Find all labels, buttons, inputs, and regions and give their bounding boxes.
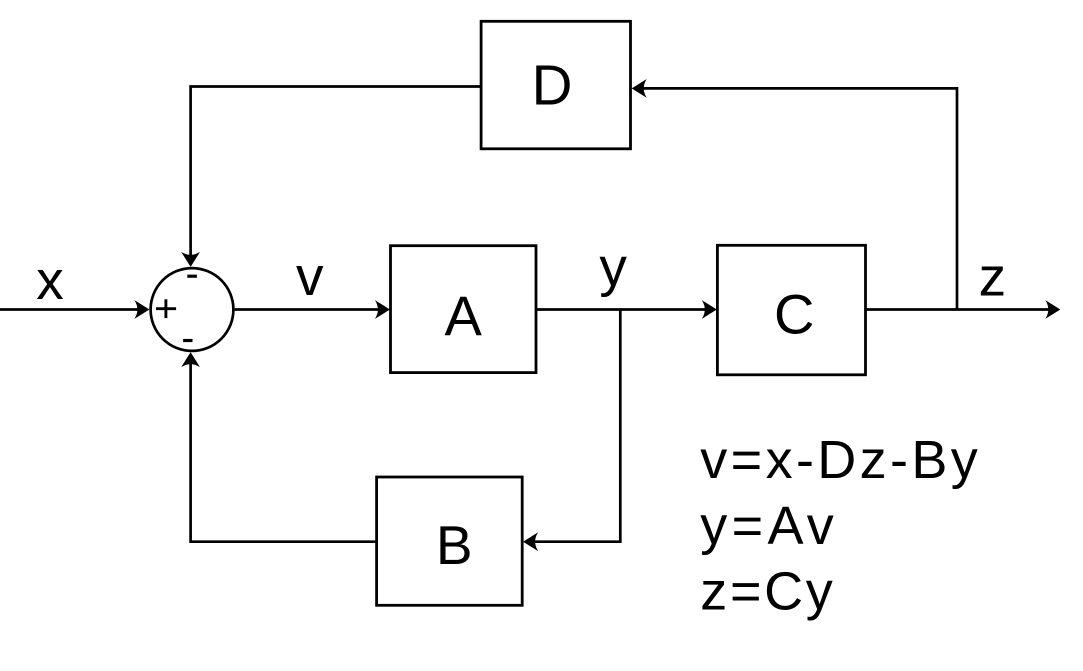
svg-text:v: v xyxy=(296,245,324,307)
node y junction and wire down into block B xyxy=(523,310,620,552)
node z junction and feedback wire up into block D xyxy=(632,79,957,310)
wire from block D down into summing junction (top) xyxy=(181,87,481,267)
svg-text:x: x xyxy=(36,249,64,311)
svg-text:y: y xyxy=(599,235,627,297)
svg-text:A: A xyxy=(445,284,483,347)
svg-text:C: C xyxy=(774,282,814,345)
svg-text:y=Av: y=Av xyxy=(700,496,834,556)
svg-text:D: D xyxy=(532,54,573,117)
wire x input into summing junction xyxy=(0,300,149,319)
wire v: summing junction to block A xyxy=(235,300,390,319)
summing junction S1 xyxy=(151,268,234,351)
svg-text:z=Cy: z=Cy xyxy=(700,562,833,622)
svg-text:v=x-Dz-By: v=x-Dz-By xyxy=(700,430,978,490)
block B xyxy=(377,477,523,605)
block A xyxy=(391,246,537,373)
block C xyxy=(717,245,865,374)
block D xyxy=(481,21,630,149)
minus sign (bottom input) xyxy=(183,339,192,342)
svg-text:z: z xyxy=(979,245,1007,307)
plus sign (x input) xyxy=(156,299,176,318)
minus sign (top input) xyxy=(187,275,197,278)
wire y: block A to block C xyxy=(536,300,717,319)
svg-text:B: B xyxy=(436,514,473,576)
wire z: block C to output xyxy=(866,300,1061,319)
wire from block B up into summing junction (bottom) xyxy=(181,352,376,542)
